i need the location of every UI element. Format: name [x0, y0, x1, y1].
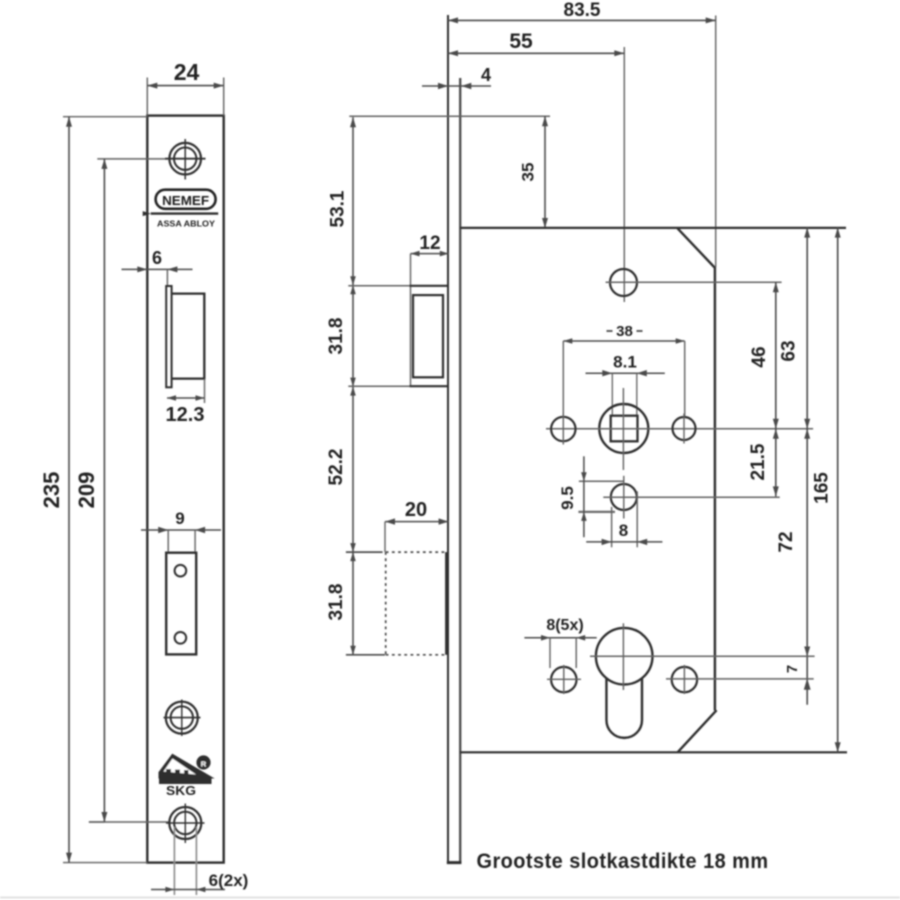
svg-text:21.5: 21.5: [748, 443, 769, 480]
svg-text:31.8: 31.8: [326, 318, 347, 355]
svg-text:9: 9: [175, 509, 184, 528]
svg-text:R: R: [201, 759, 207, 768]
svg-text:53.1: 53.1: [328, 190, 349, 227]
svg-text:ASSA ABLOY: ASSA ABLOY: [157, 219, 215, 229]
svg-text:83.5: 83.5: [564, 0, 601, 21]
svg-text:31.8: 31.8: [326, 584, 347, 621]
svg-text:46: 46: [749, 346, 770, 367]
svg-text:165: 165: [812, 472, 833, 504]
svg-text:NEMEF: NEMEF: [162, 194, 209, 208]
svg-text:72: 72: [776, 531, 797, 552]
svg-text:7: 7: [784, 665, 801, 673]
svg-text:24: 24: [174, 59, 200, 85]
svg-text:SKG: SKG: [166, 784, 196, 798]
svg-text:12.3: 12.3: [166, 404, 205, 426]
svg-text:4: 4: [481, 65, 491, 85]
svg-text:235: 235: [39, 472, 64, 509]
svg-text:8.1: 8.1: [613, 353, 637, 372]
svg-text:38: 38: [616, 323, 633, 340]
svg-text:8(5x): 8(5x): [546, 617, 583, 634]
svg-text:55: 55: [509, 30, 533, 53]
svg-text:12: 12: [419, 233, 440, 254]
svg-text:35: 35: [519, 163, 538, 182]
svg-text:209: 209: [74, 472, 99, 509]
svg-text:52.2: 52.2: [326, 449, 347, 486]
svg-text:9.5: 9.5: [558, 486, 577, 510]
svg-text:6: 6: [152, 248, 162, 268]
svg-text:8: 8: [619, 521, 628, 540]
svg-text:20: 20: [405, 499, 427, 521]
svg-text:6(2x): 6(2x): [209, 871, 249, 890]
svg-text:63: 63: [779, 340, 800, 361]
svg-text:Grootste slotkastdikte 18 m: Grootste slotkastdikte 18 mm: [477, 850, 769, 873]
